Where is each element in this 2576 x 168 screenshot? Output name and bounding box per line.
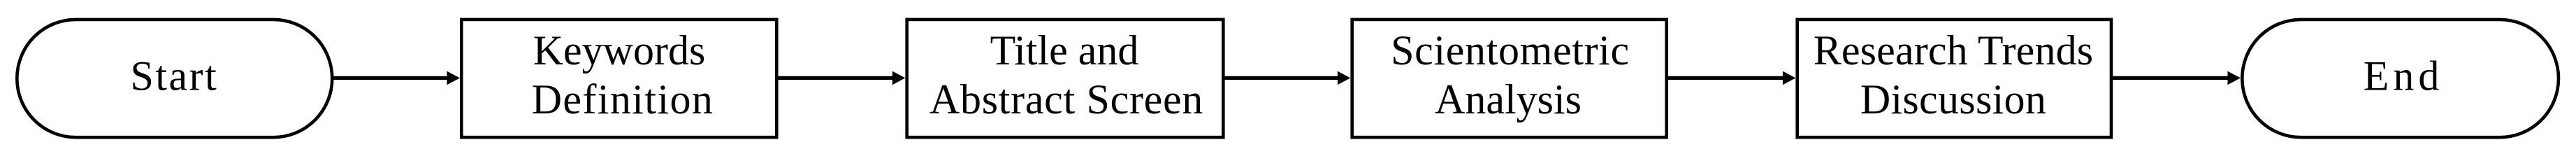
svg-text:Research Trends: Research Trends <box>1814 27 2094 73</box>
svg-text:Discussion: Discussion <box>1860 76 2046 122</box>
svg-text:Start: Start <box>130 52 218 99</box>
svg-text:Keywords: Keywords <box>533 27 706 73</box>
svg-text:Title and: Title and <box>990 27 1139 73</box>
svg-text:Abstract Screen: Abstract Screen <box>929 76 1203 122</box>
svg-text:End: End <box>2364 52 2444 99</box>
svg-text:Scientometric: Scientometric <box>1391 27 1630 73</box>
svg-text:Analysis: Analysis <box>1435 76 1582 122</box>
svg-text:Definition: Definition <box>532 76 714 122</box>
